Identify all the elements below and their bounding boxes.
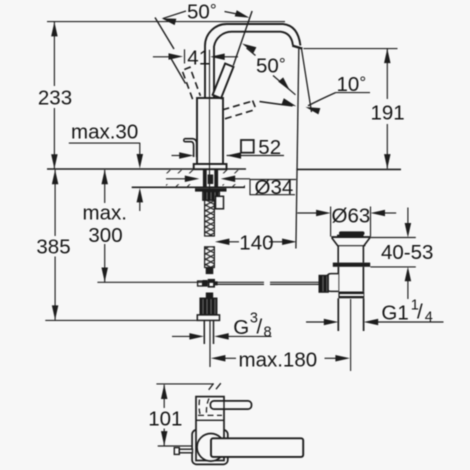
svg-text:4: 4 [425, 310, 433, 326]
svg-text:385: 385 [36, 236, 70, 259]
svg-text:G: G [233, 316, 249, 339]
svg-text:101: 101 [148, 408, 182, 431]
svg-text:Ø63: Ø63 [332, 205, 371, 228]
svg-text:233: 233 [38, 87, 72, 110]
svg-text:191: 191 [371, 101, 405, 124]
svg-text:Ø34: Ø34 [255, 176, 294, 199]
svg-text:40-53: 40-53 [381, 241, 433, 264]
svg-text:50°: 50° [187, 1, 217, 24]
svg-text:41: 41 [187, 46, 210, 69]
svg-text:max.: max. [83, 201, 127, 224]
svg-text:50°: 50° [256, 55, 286, 78]
svg-text:G1: G1 [381, 302, 408, 325]
svg-text:max.30: max.30 [71, 120, 138, 143]
svg-text:max.180: max.180 [239, 348, 318, 371]
svg-text:140: 140 [239, 232, 273, 255]
svg-text:52: 52 [258, 136, 281, 159]
svg-text:8: 8 [264, 325, 272, 341]
svg-text:/: / [257, 316, 263, 339]
svg-text:/: / [417, 301, 423, 324]
svg-text:300: 300 [88, 224, 122, 247]
